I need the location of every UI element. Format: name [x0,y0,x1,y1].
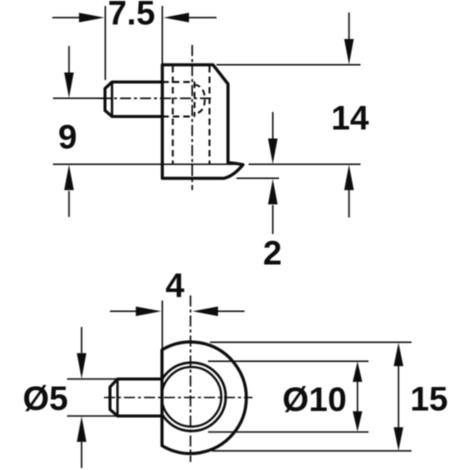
dimension 2 top arrow [268,112,278,164]
hidden line: hole silhouette right [209,66,211,164]
wire: 15 top witness line [210,341,412,343]
dimension 2 bottom arrow [268,179,278,234]
wire: 4 left extension line [161,301,163,352]
svg-text:Ø10: Ø10 [282,381,346,419]
dimension D10 double arrow [353,361,363,431]
wire: shelf plane thin line [53,163,242,165]
svg-text:4: 4 [166,267,185,305]
dimension 4 left arrow [110,307,161,317]
dimension 14 top arrow [344,13,354,65]
wire: 14 top witness line [217,64,361,66]
hidden line: pin bottom inside body [162,116,194,118]
wire: 15 bottom witness line [212,450,412,452]
node: vertical centerline [190,296,192,463]
node: horizontal centerline [104,397,253,399]
dimension 7.5 left arrow [52,13,104,23]
svg-text:7.5: 7.5 [108,0,155,33]
wire: D10 bottom witness line [208,431,369,433]
svg-text:Ø5: Ø5 [23,380,68,418]
dimension 15 double arrow [394,343,404,451]
wire: 7.5 right extension line [161,6,163,64]
dimension 7.5 right arrow [164,13,217,23]
disc circle inner chamfer [162,367,222,427]
dimension D5 bottom arrow [77,416,87,468]
node: pin centerline dash-dot [100,97,213,99]
svg-text:2: 2 [263,234,282,272]
pin chamfer junction line [111,82,113,117]
svg-text:15: 15 [410,380,448,418]
wire: 7.5 left extension line [104,6,106,80]
pin chamfer junction line front [116,379,118,416]
pin [105,82,162,117]
dimension D5 top arrow [77,327,87,379]
svg-text:9: 9 [58,118,77,156]
dimension 14 bottom arrow [344,165,354,218]
dimension 9 bottom arrow [64,165,74,217]
svg-text:14: 14 [331,99,369,137]
outer profile D-shape [162,342,246,454]
wire: pin axis witness line (9 dim top) [53,97,105,99]
wire: D5 top witness line [67,378,130,380]
hidden line: pin end D-shape flat [194,82,196,117]
hidden line: pin top inside body [162,81,194,83]
body outline [162,65,243,179]
hidden line: pin end D-shape arc [195,85,205,115]
hidden line: hole silhouette left [172,66,174,164]
dimension 4 right arrow [193,307,245,317]
wire: 2 bottom witness line [237,177,280,179]
disc circle outer [157,363,225,431]
wire: D5 bottom witness line [67,415,130,417]
dimension 9 top arrow [64,46,74,98]
node: body vertical centerline [191,45,193,190]
wire: D10 top witness line [208,360,369,362]
pin front [110,379,162,416]
